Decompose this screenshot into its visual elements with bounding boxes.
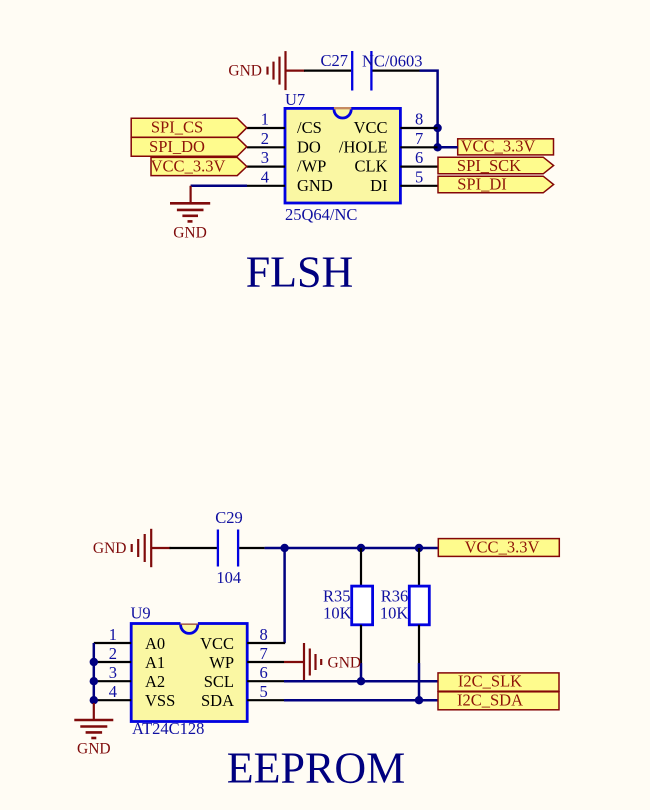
svg-text:10K: 10K bbox=[380, 604, 409, 623]
svg-text:VCC_3.3V: VCC_3.3V bbox=[465, 538, 540, 557]
port SPI_CS bbox=[131, 118, 247, 137]
svg-text:SDA: SDA bbox=[201, 691, 234, 710]
wire rail down to pin 8 bbox=[283, 548, 286, 643]
VCC rail wire bbox=[265, 547, 439, 550]
junction R35 top bbox=[357, 544, 365, 552]
svg-text:1: 1 bbox=[261, 110, 269, 129]
svg-text:A2: A2 bbox=[145, 672, 165, 691]
U7 pin 1 bbox=[247, 127, 285, 129]
junction pin4 bbox=[90, 696, 98, 704]
left bus wire bbox=[93, 643, 96, 703]
resistor R36 bbox=[409, 548, 429, 663]
power ground GND (top, at C27) bbox=[268, 51, 306, 90]
svg-text:GND: GND bbox=[297, 176, 333, 195]
junction pin2 bbox=[90, 658, 98, 666]
port I2C_SLK bbox=[438, 673, 559, 691]
svg-text:GND: GND bbox=[93, 540, 127, 557]
junction R35 bottom bbox=[357, 677, 365, 685]
svg-text:GND: GND bbox=[173, 225, 207, 242]
port VCC_3.3V right bbox=[458, 139, 554, 155]
power ground GND (at U9 pin7) bbox=[284, 643, 321, 681]
svg-text:104: 104 bbox=[216, 568, 241, 587]
U9 pin 6 bbox=[247, 680, 284, 682]
wire SCL to I2C_SLK bbox=[284, 680, 438, 683]
port SPI_DI bbox=[438, 176, 554, 193]
svg-text:SPI_DI: SPI_DI bbox=[457, 175, 507, 194]
svg-text:VCC: VCC bbox=[200, 634, 234, 653]
svg-text:5: 5 bbox=[415, 167, 423, 186]
svg-text:6: 6 bbox=[260, 663, 268, 682]
svg-text:I2C_SDA: I2C_SDA bbox=[457, 690, 523, 709]
svg-text:I2C_SLK: I2C_SLK bbox=[458, 672, 522, 691]
svg-text:U9: U9 bbox=[131, 604, 151, 623]
svg-text:25Q64/NC: 25Q64/NC bbox=[285, 205, 357, 224]
svg-text:FLSH: FLSH bbox=[246, 248, 354, 297]
svg-text:GND: GND bbox=[228, 63, 262, 80]
svg-text:5: 5 bbox=[260, 682, 268, 701]
svg-text:CLK: CLK bbox=[355, 157, 388, 176]
port VCC_3.3V bottom bbox=[438, 539, 559, 557]
capacitor C29 bbox=[218, 530, 238, 567]
svg-text:AT24C128: AT24C128 bbox=[132, 719, 204, 738]
svg-text:8: 8 bbox=[260, 625, 268, 644]
earth ground (below U9) bbox=[74, 703, 113, 738]
U7 pin 7 bbox=[400, 146, 437, 148]
svg-text:GND: GND bbox=[328, 654, 362, 671]
IC U9 body bbox=[131, 624, 247, 722]
svg-text:2: 2 bbox=[109, 644, 117, 663]
junction at pin 8 bbox=[433, 124, 441, 132]
svg-text:A1: A1 bbox=[145, 653, 165, 672]
svg-text:VCC_3.3V: VCC_3.3V bbox=[151, 157, 226, 176]
U9 pin 8 bbox=[247, 642, 285, 644]
U9 pin 1 bbox=[94, 642, 131, 644]
U7 pin 4 bbox=[247, 185, 285, 187]
svg-text:8: 8 bbox=[415, 110, 423, 129]
pin numbers 1-4 bbox=[261, 110, 269, 187]
wire GND to C27 bbox=[304, 69, 351, 71]
svg-text:R35: R35 bbox=[323, 586, 351, 605]
svg-text:DO: DO bbox=[297, 137, 321, 156]
svg-text:VCC_3.3V: VCC_3.3V bbox=[461, 137, 536, 156]
svg-text:/CS: /CS bbox=[297, 118, 322, 137]
U9 pin 5 bbox=[247, 699, 284, 701]
svg-text:7: 7 bbox=[415, 129, 423, 148]
wire SDA to I2C_SDA bbox=[284, 699, 438, 702]
U9 pin 3 bbox=[94, 680, 131, 682]
wire C27 to VCC rail bbox=[420, 71, 438, 147]
svg-text:7: 7 bbox=[260, 644, 268, 663]
U9 notch bbox=[181, 623, 198, 634]
U7 pin 8 bbox=[400, 127, 437, 129]
U7 pin 2 bbox=[247, 146, 285, 148]
U7 pin 6 bbox=[400, 166, 438, 168]
U7 pin 5 bbox=[400, 185, 438, 187]
svg-text:10K: 10K bbox=[323, 604, 352, 623]
junction R36 bottom bbox=[415, 696, 423, 704]
U7 pin labels right bbox=[339, 118, 388, 195]
U7 notch bbox=[334, 108, 351, 118]
U9 pin 7 bbox=[247, 661, 284, 663]
power ground GND (at C29) bbox=[132, 529, 171, 567]
wire C29 right pin bbox=[239, 547, 264, 549]
wire pin4 to ground bbox=[191, 185, 247, 188]
svg-text:SCL: SCL bbox=[204, 672, 234, 691]
svg-text:3: 3 bbox=[261, 148, 269, 167]
port SPI_DO bbox=[131, 137, 247, 156]
U9 pin 2 bbox=[94, 661, 131, 663]
wire pin7 junction to VCC port bbox=[438, 146, 458, 149]
U7 pin 3 bbox=[247, 166, 285, 168]
svg-text:VSS: VSS bbox=[145, 691, 175, 710]
port SPI_SCK bbox=[438, 157, 554, 174]
svg-text:/HOLE: /HOLE bbox=[339, 137, 388, 156]
junction C29/pin8 bbox=[280, 544, 288, 552]
svg-text:GND: GND bbox=[77, 741, 111, 758]
port I2C_SDA bbox=[438, 692, 559, 710]
U9 pin labels right bbox=[200, 634, 234, 710]
junction pin3 bbox=[90, 677, 98, 685]
svg-text:4: 4 bbox=[109, 682, 117, 701]
resistor R35 bbox=[352, 548, 373, 663]
wire R36 to SDA bbox=[418, 663, 421, 700]
U9 pin numbers 1-4 bbox=[109, 625, 117, 701]
wire R35 to SCL bbox=[360, 663, 363, 681]
svg-text:6: 6 bbox=[415, 148, 423, 167]
svg-text:3: 3 bbox=[109, 663, 117, 682]
svg-text:EEPROM: EEPROM bbox=[227, 744, 405, 793]
svg-text:1: 1 bbox=[109, 625, 117, 644]
svg-text:U7: U7 bbox=[285, 90, 305, 109]
svg-text:DI: DI bbox=[370, 176, 387, 195]
port VCC_3.3V left bbox=[151, 157, 247, 175]
capacitor C27 bbox=[352, 51, 371, 91]
U9 pin labels left bbox=[145, 634, 175, 710]
svg-text:SPI_SCK: SPI_SCK bbox=[457, 156, 521, 175]
IC U7 body bbox=[285, 108, 400, 203]
pin numbers 8-5 bbox=[415, 110, 423, 187]
svg-text:WP: WP bbox=[209, 653, 234, 672]
svg-text:SPI_DO: SPI_DO bbox=[149, 137, 205, 156]
junction R36 top bbox=[415, 544, 423, 552]
wire GND to C29 bbox=[170, 547, 218, 549]
svg-text:NC/0603: NC/0603 bbox=[362, 52, 423, 71]
svg-text:SPI_CS: SPI_CS bbox=[151, 118, 203, 137]
earth ground (below U7) bbox=[170, 186, 210, 222]
wire C27 right pin bbox=[373, 69, 420, 71]
svg-text:/WP: /WP bbox=[297, 157, 326, 176]
svg-text:4: 4 bbox=[261, 167, 269, 186]
U7 pin labels left bbox=[297, 118, 333, 195]
svg-text:A0: A0 bbox=[145, 634, 165, 653]
svg-text:C27: C27 bbox=[320, 51, 348, 70]
svg-text:2: 2 bbox=[261, 129, 269, 148]
U9 pin 4 bbox=[94, 699, 131, 701]
svg-text:VCC: VCC bbox=[354, 118, 388, 137]
U9 pin numbers 8-5 bbox=[260, 625, 268, 701]
svg-text:R36: R36 bbox=[381, 586, 409, 605]
junction at pin 7 bbox=[433, 143, 441, 151]
svg-text:C29: C29 bbox=[215, 508, 243, 527]
